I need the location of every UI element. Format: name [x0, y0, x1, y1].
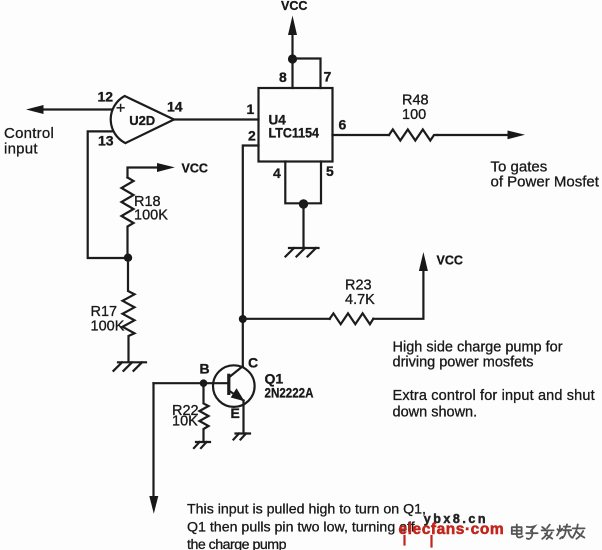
wire emitter to ground	[242, 401, 244, 434]
op-amp U2D	[111, 96, 174, 143]
svg-text:4.7K: 4.7K	[345, 292, 375, 308]
node base R22 junction	[200, 379, 208, 387]
control input arrow wire	[26, 105, 112, 114]
svg-text:B: B	[200, 361, 210, 377]
transistor Q1 base bar	[227, 375, 230, 393]
svg-text:12: 12	[98, 89, 114, 105]
wire op-amp output to pin 1	[174, 118, 259, 120]
svg-text:2N2222A: 2N2222A	[265, 385, 314, 401]
svg-text:7: 7	[324, 69, 332, 85]
svg-text:High side charge pump for: High side charge pump for	[393, 340, 563, 356]
svg-text:13: 13	[98, 133, 114, 149]
svg-text:the charge pump: the charge pump	[187, 537, 287, 550]
svg-text:10K: 10K	[172, 414, 198, 430]
wire pin 2 to Q1 collector	[243, 146, 259, 367]
node pins 4-5 junction	[299, 199, 308, 208]
wire pin 13 down	[88, 131, 128, 258]
bottom input arrow	[149, 496, 158, 514]
svg-text:This input is pulled high to t: This input is pulled high to turn on Q1,	[187, 502, 426, 518]
IC U4 LTC1154	[259, 88, 333, 162]
node R18 bottom junction	[124, 254, 132, 262]
svg-text:LTC1154: LTC1154	[269, 126, 320, 141]
transistor Q1 circle	[213, 365, 255, 407]
svg-text:E: E	[231, 405, 240, 421]
VCC top arrow	[288, 16, 297, 59]
svg-text:5: 5	[326, 163, 334, 179]
ground R22	[194, 442, 210, 448]
svg-text:6: 6	[339, 117, 347, 133]
wire pin 6	[333, 134, 390, 136]
svg-text:Q1 then pulls pin two low, tur: Q1 then pulls pin two low, turning off	[187, 520, 415, 536]
svg-text:14: 14	[167, 99, 183, 115]
svg-text:C: C	[248, 355, 258, 371]
svg-text:8: 8	[279, 69, 287, 85]
resistor R17	[123, 262, 135, 361]
svg-text:Control: Control	[4, 125, 54, 142]
watermark chinese characters	[512, 524, 585, 539]
wire R23 to VCC	[373, 269, 423, 319]
wire R23 horizontal	[243, 318, 330, 320]
svg-text:VCC: VCC	[182, 162, 208, 176]
wire pin 8	[291, 59, 293, 88]
watermark drip marks	[405, 536, 432, 547]
resistor R23	[330, 313, 374, 324]
svg-text:elecfans·com: elecfans·com	[399, 521, 505, 538]
svg-text:100K: 100K	[134, 208, 168, 224]
svg-text:100: 100	[402, 107, 426, 123]
transistor Q1 collector lead	[229, 366, 243, 377]
resistor R18	[122, 178, 134, 254]
wire base to bottom arrow	[152, 383, 154, 498]
svg-text:down shown.: down shown.	[393, 405, 478, 421]
node VCC junction	[288, 54, 297, 63]
svg-text:U2D: U2D	[129, 113, 155, 128]
wire junction to ground	[302, 204, 304, 248]
svg-text:2: 2	[248, 128, 256, 144]
svg-text:driving power mosfets: driving power mosfets	[393, 355, 534, 371]
VCC right arrow	[419, 252, 428, 271]
wire pin 7	[293, 59, 321, 89]
wire pins 4 and 5	[285, 162, 321, 204]
svg-text:VCC: VCC	[437, 254, 463, 268]
transistor Q1 emitter lead	[229, 388, 245, 401]
resistor R22	[200, 383, 209, 441]
output arrow to gates	[438, 131, 526, 140]
resistor R48	[389, 130, 438, 141]
svg-text:4: 4	[273, 165, 281, 181]
VCC mid arrow	[128, 163, 175, 178]
ground R17	[114, 362, 147, 371]
node collector R23 junction	[239, 315, 247, 323]
ground Q1 emitter	[234, 434, 251, 440]
svg-text:input: input	[4, 141, 38, 158]
svg-text:VCC: VCC	[281, 0, 307, 13]
svg-text:of Power Mosfet: of Power Mosfet	[491, 174, 600, 191]
op-amp plus mark	[117, 105, 124, 112]
svg-text:100K: 100K	[91, 319, 125, 335]
svg-text:Extra control for input and sh: Extra control for input and shut	[393, 388, 595, 404]
svg-text:1: 1	[247, 101, 255, 117]
wire base	[154, 382, 229, 384]
ground U4	[286, 248, 319, 257]
